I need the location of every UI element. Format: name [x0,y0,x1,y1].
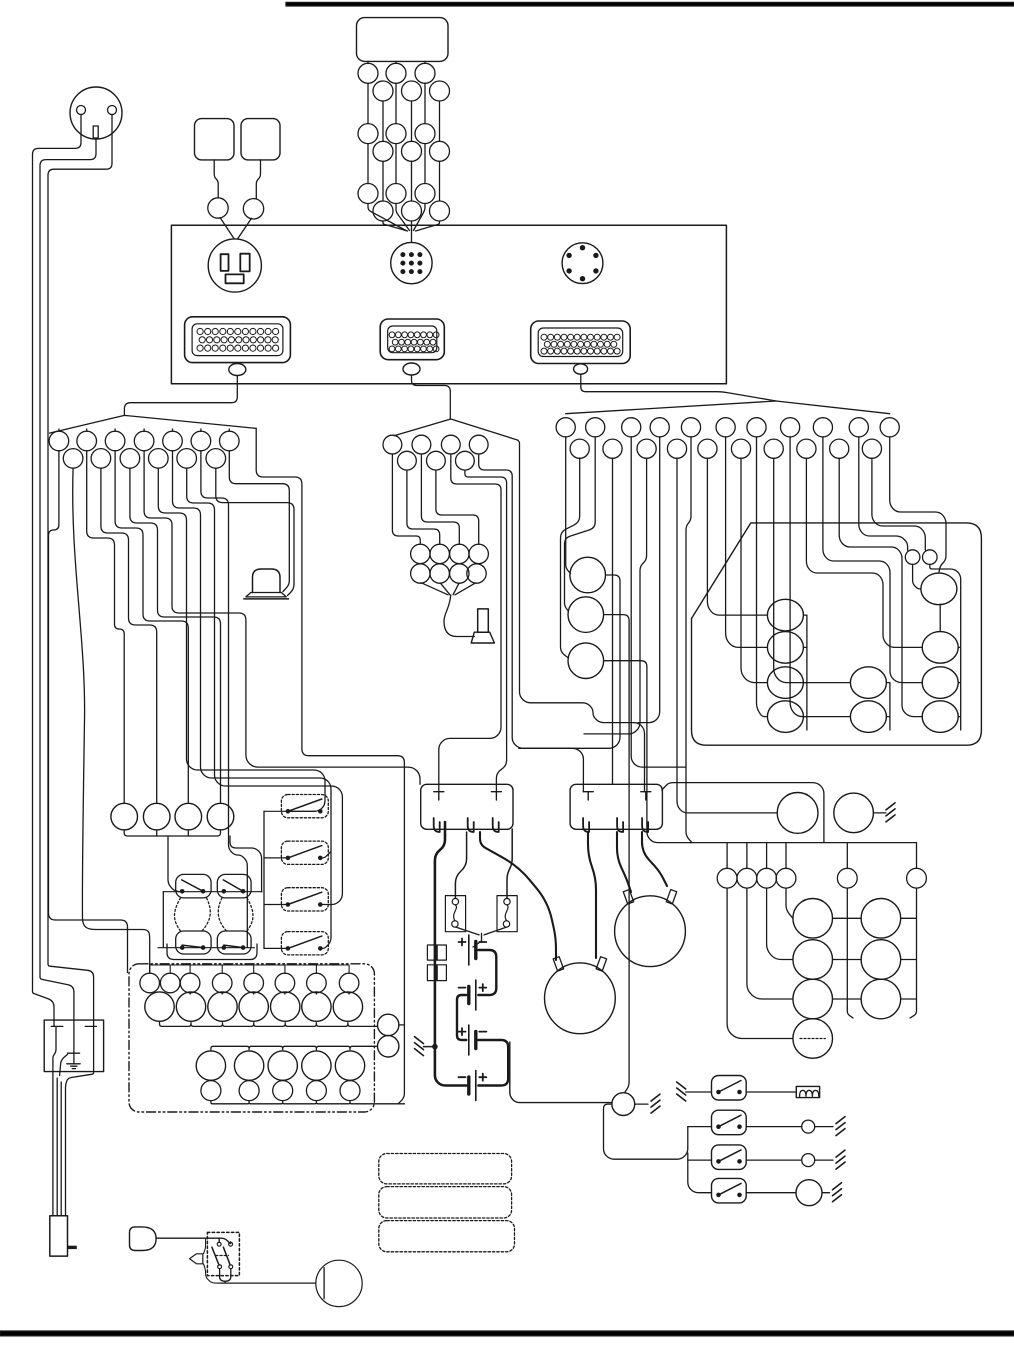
accessory lamp A2 [793,940,833,980]
gauge B1 [850,667,886,699]
wire left terminal 1 [49,451,128,973]
fuse feed wires [455,832,466,898]
cable gland J3 [574,364,588,374]
gauge A3 [767,667,803,699]
ring terminal below breaker 2 [243,199,263,219]
wire right t2b to U2 coil [612,458,614,784]
accessory lamp B2 [861,940,901,980]
option module 2 (dashed) [379,1187,512,1218]
terminal plate R [85,1026,96,1071]
starter cable U2c to E2 [642,832,667,886]
wire R3 to lamp [746,1159,802,1161]
lower contact underline [167,944,257,960]
row 2 top feed from CB2 [211,1046,378,1051]
row 2 bottom bus [211,1101,405,1104]
wire right t7 to gauge A4 [757,437,768,717]
fuse outputs converge [456,927,507,947]
wire breaker2 to terminal [256,160,260,199]
accessory lamp A1 [793,899,833,939]
wire right t10b to pilot b [872,458,925,550]
dashed actuator links [175,898,181,931]
battery switch solenoid U1 [421,784,513,829]
wire left terminal 9 [173,451,332,949]
wire J1 gland to left fan [124,376,237,416]
wire relay to starter motor [220,1269,231,1282]
relay K1 contacts lower [176,931,211,954]
wire right t9 to gauge C3 [823,437,922,683]
terminal grid column links [368,61,440,201]
switch S1 (dashed) [281,795,328,818]
starter cable U2a to E1 [588,832,596,958]
gauge c3 top [921,573,957,605]
alarm bell [253,569,281,593]
engine E2 (stbd) [615,896,686,967]
row 2 links [211,1079,350,1081]
battery B4 [475,1071,477,1101]
wire fan end to U2 term 2 [518,440,645,792]
horn [478,609,489,632]
wire right t1b to mid gauge 3 [561,458,580,658]
buzzer arrow [190,1254,203,1264]
right terminal strip row 1 [556,418,575,437]
battery switch solenoid U2 [570,784,662,829]
wires terminals to lamps [786,888,793,918]
wire R2 to lamp [746,1126,802,1128]
sender circle M1 [777,793,818,834]
wire blower to ground [635,1103,648,1105]
distribution panel (dash-dot box) [129,964,374,1112]
wire right t7b to gauge B1 [774,458,851,682]
accessory relay R2 [712,1110,747,1135]
wire buzzer loop [204,1238,206,1253]
wire left terminal 10 [187,468,343,904]
wire fan end to lower bus [256,428,404,1103]
chassis ground (R2 lamp) [836,1117,845,1136]
wire right t3 [631,437,686,767]
gauge panel enclosure [692,523,982,745]
lamp L2 [143,803,170,830]
lamp A4 dashed filament [800,1038,825,1040]
blower motor circle [612,1093,635,1116]
R bus stubs [688,1127,712,1161]
wire right t8 to gauge B2 [790,437,850,717]
wire left terminal 6 [130,468,221,803]
shore power plug P1 [70,87,122,139]
switch S3 (dashed) [281,888,328,911]
starter cable U1 to E1 [480,832,556,960]
breaker row 2 bodies [196,1051,225,1080]
starter motor [316,1260,362,1306]
relay contacts [217,1242,221,1246]
mid gauge circle 1 [570,557,606,593]
wire right t1 to mid gauge 1 [566,437,571,574]
wire to chassis ground [424,1046,435,1048]
relay K2 [217,874,251,898]
wire centre t1 [392,454,420,544]
battery B2 [475,980,477,1010]
lamp bus A riser [833,888,848,1008]
row 1 links [190,993,349,994]
centre terminal strip row 2 [398,451,417,470]
wire left terminal 7 [144,451,420,785]
wire left terminal 2 (bowed) [73,468,150,973]
shore cord plug connector [50,1216,68,1256]
wire right t5b to gauge A1 [707,458,767,615]
chassis ground (battery) [415,1037,424,1056]
wire cluster to horn [444,595,474,636]
lamp R3 [802,1154,815,1167]
galvanic isolator box [44,1020,103,1072]
harness connector J1 (33 pin) [185,317,291,363]
accessory lamp B1 [861,899,901,939]
wire centre t2 [407,470,440,544]
chassis ground (R3 lamp) [836,1150,845,1169]
wire right t6b to gauge A3 [741,458,767,682]
wire R4 to motor [746,1192,796,1194]
heater element [796,1086,819,1097]
gauge bus A [803,615,807,730]
breaker row 1 bodies [145,992,174,1021]
wire left terminal 4 [101,468,157,803]
cable gland J2 [403,363,420,375]
lamp L1 [111,803,138,830]
wire left terminal 3 [87,451,125,804]
option module 3 (dashed) [379,1221,515,1252]
gauge bus B [886,683,890,730]
wire right t8b to gauge C2 [806,458,922,647]
wire left terminal 5 [115,451,188,804]
relay K2 contacts lower [217,931,251,954]
wire right t6 to gauge A2 [726,437,768,648]
wire M2 to ground [873,812,886,814]
wire centre t7 to U2 term 1 [479,454,584,792]
wire plug pin L to left vertical [33,115,82,1027]
wire left terminal 13 to bell [229,451,289,592]
wire right t5 to accessory bus [686,437,692,843]
wire box to cable [53,1045,56,1216]
pilot to gauge links [913,564,921,589]
main panel enclosure [171,225,726,383]
switch feed stubs [264,811,287,948]
wire centre t5 to U1 term 1 [439,454,501,792]
gauge C2 [922,667,958,699]
switch left bus [263,811,265,948]
wire J3 gland to right fan [581,374,776,401]
bus A bottom hook [847,1008,853,1018]
main breaker CB1 [378,1014,399,1035]
accessory bus [690,843,917,869]
harness connector J3 (35 pin) [531,321,631,364]
breaker row 2 small terminals [201,1081,221,1101]
wire right t3b [584,458,647,734]
branch to switch S2 [321,852,331,858]
mid gauge circle 2 [568,597,604,633]
ground tap dot [432,1044,438,1050]
wire ground to R1 [686,1091,712,1093]
top rule bar [286,2,1014,6]
lamp L4 [207,803,234,830]
main negative cable [435,822,466,1086]
motor R4 [796,1180,822,1206]
pilot lamp b [923,550,938,565]
accessory lamp A4 [793,1019,833,1059]
wire right t4b to sender M1 [677,458,777,813]
wire lamp bus down to relays [230,836,262,892]
wires terminals converge to AC inlet [220,218,252,239]
accessory lamp B3 [861,979,901,1019]
terminal grid ring terminals [358,63,378,83]
wires grid converge to DC connector [368,204,406,231]
fuse F2 [497,896,517,932]
battery jumper B2-B3 [457,995,466,1040]
option module 1 (dashed) [379,1154,512,1184]
mid gauge circle 3 [568,643,604,679]
harness connector J2 (23 pin) [380,319,444,360]
fuse cluster terminals [411,544,430,563]
engine E1 (port) [545,963,616,1034]
battery B1 [468,935,470,965]
left terminal strip row 2 [63,449,83,469]
start relay (dashed) [207,1232,239,1275]
right terminal strip row 2 [570,439,589,458]
accessory relay R1 [712,1076,747,1101]
mid gauge stubs right [519,575,620,748]
starter cable U2b to E2 [617,832,631,892]
gauge B2 [850,701,886,733]
inline connector blocks [427,945,436,960]
round connector (6 pin) [562,243,603,284]
centre fan tent [394,419,518,440]
wire plug pin R [48,115,112,1027]
DC connector (9 pin) [391,242,432,283]
wire R1 to heater element [746,1091,796,1093]
lamp bus B riser [901,888,917,1008]
fuse F1 [445,896,465,932]
wire left terminal 12 to bell [216,468,294,595]
wire key to start relay [156,1238,231,1243]
lamp R2 [802,1120,815,1133]
chassis ground (M2) [886,803,895,822]
gauge C3 [922,701,958,733]
battery jumper B3-B4 [478,1040,508,1086]
main breaker CB2 [378,1036,399,1057]
chassis ground (R1) [677,1082,686,1101]
links bus A to lamp B lefts [847,918,861,999]
AC inlet receptacle [208,239,261,292]
wire blower feed to relay bus [604,1104,688,1159]
gauge A4 [767,701,803,733]
gauge C1 [922,632,958,664]
key switch body [130,1227,157,1251]
wire right t9b to gauge C4 [839,458,922,716]
CB1 feed stub [399,1024,405,1026]
lamp bus [124,830,220,836]
gauge A1 [767,599,803,631]
right fan tent [566,401,890,414]
inverter/charger block [357,18,449,62]
left fan tent [50,415,257,433]
switch S4 (dashed) [281,932,328,955]
wire left terminal 8 [158,468,325,811]
ground symbol inside box [67,1053,80,1068]
wire J2 gland to centre fan [412,375,451,419]
relay K1 [176,874,211,898]
switch S2 (dashed) [281,841,328,864]
battery jumper B1-B2 [478,950,496,995]
gauge A2 [767,632,803,664]
plug blade prong [68,1246,77,1249]
wire plug ground pin [40,138,96,1053]
row 1 top feeds [150,965,349,973]
wire centre t6 to U1 term 2 [465,470,507,792]
left terminal strip row 1 [58,429,60,431]
pilot lamp a [905,550,920,565]
wire centre t3 [421,454,459,544]
row 1 bus [160,1021,378,1026]
breaker row 1 small terminals [140,973,160,993]
wire right t10 to pilot a [859,437,908,550]
accessory terminals [717,868,737,888]
fuse cluster converge [421,583,476,595]
wire U2 corner to bus riser [662,783,824,843]
wire centre t4 [436,470,479,544]
accessory relay R3 [712,1145,747,1170]
cable gland J1 [229,364,246,376]
ring terminal below breaker 1 [208,198,228,218]
lamp L3 [175,803,202,830]
AC breaker module 2 [241,119,280,160]
wire right t2 to mid gauge 2 [565,437,596,611]
wire right t4 [638,437,660,723]
accessory lamp A3 [793,979,833,1019]
gauge bus C [940,588,961,730]
battery B3 [468,1025,470,1055]
sender circle M2 [834,793,874,833]
wire right t11 into panel [890,437,946,573]
wire breaker1 to terminal [214,160,218,198]
accessory relay R4 [712,1178,747,1203]
chassis ground (R4 motor) [833,1183,842,1202]
link wires K1/K2 [163,891,262,893]
terminal plate L [51,1026,63,1045]
AC breaker module 1 [195,119,235,160]
chassis ground (blower) [651,1094,660,1113]
battery tap to starter circuit [510,1042,612,1103]
wire left terminal 11 [201,451,247,948]
relay bus lower [688,1153,712,1193]
centre terminal strip row 1 [383,435,402,454]
bottom rule bar [0,1331,1014,1336]
